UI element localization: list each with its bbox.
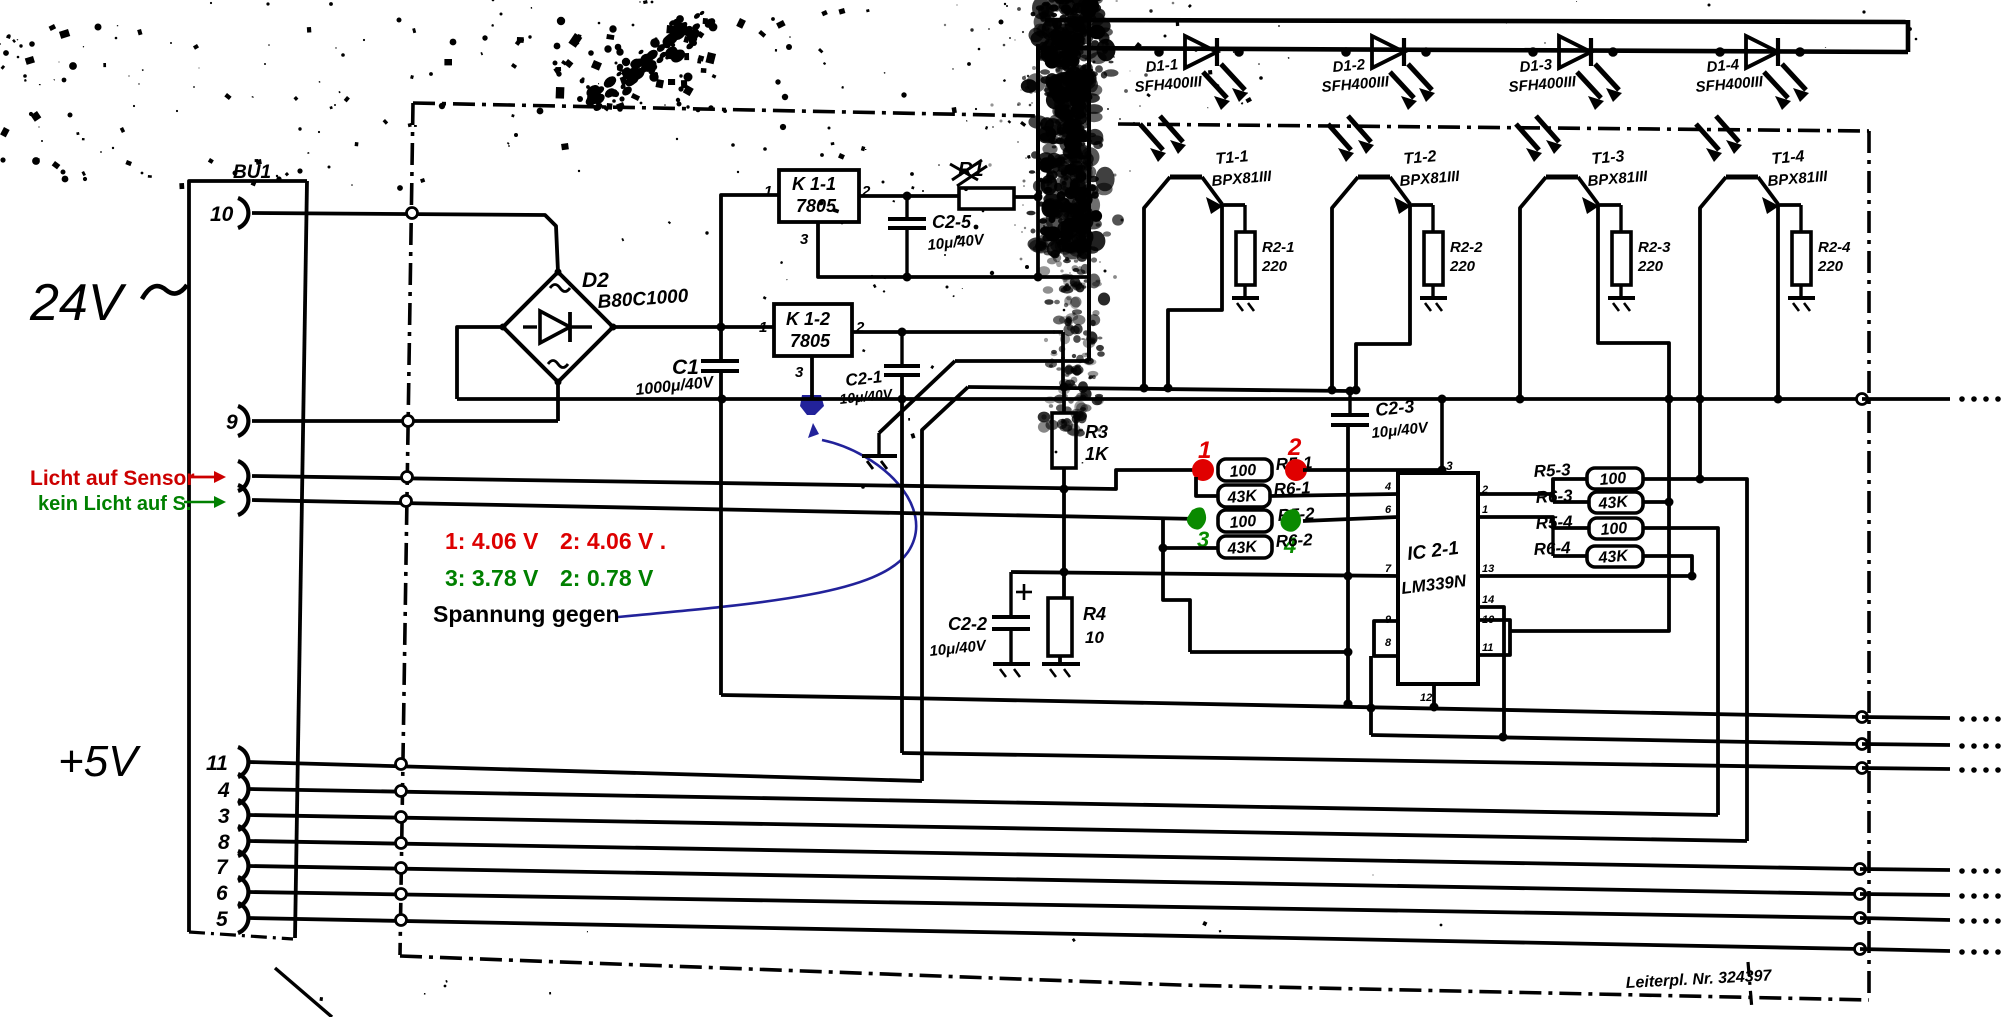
svg-text:1: 4.06 V: 1: 4.06 V — [445, 528, 539, 554]
svg-text:3: 3 — [1446, 459, 1453, 473]
svg-text:D1-3: D1-3 — [1519, 56, 1554, 76]
wire bridge bottom to pin9 — [556, 382, 560, 421]
svg-text:10: 10 — [1085, 628, 1104, 647]
resistor R4 box — [1048, 598, 1072, 656]
regulator K1-1 box — [779, 170, 859, 222]
phototransistor T1-1 — [1170, 175, 1202, 180]
wire line3 — [902, 753, 1862, 768]
svg-text:5: 5 — [216, 908, 228, 931]
junction dot C2-5 top — [903, 192, 912, 201]
junction dot R3 C2-2 line — [1060, 568, 1069, 577]
wire R5-3 right down to pin3 line — [1643, 479, 1747, 841]
svg-text:220: 220 — [1817, 258, 1844, 275]
wire R1 right to LED bus — [1014, 195, 1038, 199]
svg-text:100: 100 — [1600, 520, 1628, 539]
wire staircase diagonal — [922, 387, 968, 781]
junction dot R6-4 to line — [1688, 572, 1697, 581]
LED D1-3 — [1559, 36, 1591, 68]
svg-text:10: 10 — [210, 203, 234, 226]
PCB border top-right segment — [1118, 124, 1869, 131]
svg-text:R6-2: R6-2 — [1275, 530, 1313, 551]
svg-text:D1-2: D1-2 — [1332, 56, 1367, 76]
wire rail to IC pin3 — [1440, 399, 1444, 473]
BU1 pin 6 at y=892 — [238, 877, 248, 907]
svg-text:BU1: BU1 — [233, 162, 271, 183]
junction circle pin6 right border — [1855, 913, 1866, 924]
svg-text:1K: 1K — [1085, 444, 1110, 464]
wire R4 bottom lead — [1058, 656, 1062, 663]
svg-text:11: 11 — [1482, 642, 1493, 654]
capacitor C1 — [701, 359, 739, 363]
junction circle pin8 at border — [396, 838, 407, 849]
svg-text:43K: 43K — [1226, 487, 1259, 507]
junction circle pin8 right border — [1855, 864, 1866, 875]
BU1 pin sensor at y=476 — [238, 461, 248, 491]
svg-text:4: 4 — [1384, 481, 1391, 493]
junction circle sensor2 at border — [401, 496, 412, 507]
red probe dot 2 — [1285, 459, 1307, 481]
capacitor C2-2 plus sign — [1016, 591, 1032, 594]
svg-text:3: 3 — [795, 364, 804, 381]
bridge vertex dots — [555, 269, 562, 276]
wire R3 top lead — [1062, 387, 1066, 413]
wire IC left pin9 vertical — [1369, 656, 1373, 735]
BU1 pin 10 at y=213 — [238, 198, 248, 228]
wire R5-1 out to IC — [1303, 470, 1442, 473]
LED bus top line — [1045, 20, 1908, 22]
wire pin7 line — [249, 866, 1860, 894]
junction circle sensor1 at border — [402, 472, 413, 483]
junction dot rail K1-1 pin1 vertical — [718, 395, 727, 404]
junction circle line2 right border — [1857, 739, 1868, 750]
wire R3 bottom lead — [1062, 468, 1066, 598]
diagonal noise streak top-center — [583, 10, 717, 113]
junction circle pin7 at border — [396, 863, 407, 874]
svg-text:43K: 43K — [1597, 493, 1630, 513]
junction dot IC pin12 ground — [1430, 703, 1439, 712]
svg-text:R2-2: R2-2 — [1450, 239, 1483, 256]
capacitor C2-3 — [1331, 413, 1369, 417]
junction circle 0V rail right border — [1857, 394, 1868, 405]
LED D1-2 — [1372, 36, 1404, 68]
wire U-loop reference net — [1190, 650, 1348, 654]
PCB border right vertical — [1867, 131, 1871, 998]
wire +5V corner down — [1061, 332, 1065, 387]
svg-text:100: 100 — [1229, 513, 1257, 532]
junction dot C2-1 top — [898, 328, 907, 337]
wire R6-2 left stub and down — [1161, 518, 1165, 548]
resistor R6-1 box — [1218, 485, 1270, 507]
wire pin8 line — [249, 841, 1860, 869]
svg-text:43K: 43K — [1597, 547, 1630, 567]
svg-text:7805: 7805 — [790, 331, 831, 351]
capacitor C2-2 — [992, 615, 1030, 619]
LED bus bottom line — [1038, 48, 1908, 52]
svg-text:220: 220 — [1261, 258, 1288, 275]
svg-text:T1-4: T1-4 — [1771, 148, 1805, 168]
wire LED bus left vertical — [1036, 44, 1040, 197]
bridge D2 AC tilde top — [550, 285, 570, 292]
svg-text:1: 1 — [759, 319, 767, 336]
svg-text:9: 9 — [226, 411, 238, 434]
svg-text:3: 3 — [218, 805, 230, 828]
svg-text:100: 100 — [1599, 470, 1627, 489]
svg-text:7805: 7805 — [796, 196, 837, 216]
resistor R3 box — [1052, 413, 1076, 468]
phototransistor T1-3 — [1546, 175, 1578, 180]
junction circle pin9 at border — [403, 416, 414, 427]
resistor R5-1 box — [1218, 459, 1272, 481]
wire ground rail — [721, 695, 1862, 717]
wire pin11 +5V line — [249, 762, 922, 781]
IC2-1 left jog pins — [1374, 621, 1398, 656]
junction dot x1504 line2 — [1499, 733, 1508, 742]
BU1 pin 9 at y=421 — [238, 406, 248, 436]
dark scanner smudge column — [944, 0, 1174, 437]
svg-text:Licht auf Sensor: Licht auf Sensor — [30, 467, 195, 490]
red arrow to sensor pin — [188, 476, 222, 479]
resistor R6-2 box — [1218, 536, 1272, 558]
BU1 pin 8 at y=841 — [238, 826, 248, 856]
wire R6-3 left stub — [1553, 500, 1589, 504]
svg-text:T1-1: T1-1 — [1215, 148, 1249, 168]
junction dot plus rail at C1 — [717, 323, 726, 332]
svg-text:R2-3: R2-3 — [1638, 239, 1671, 256]
svg-text:2: 2 — [1287, 434, 1302, 461]
svg-text:220: 220 — [1637, 258, 1664, 275]
wire R6-4 right corner — [1643, 556, 1692, 576]
wire bridge plus to K1-2 pin1 — [613, 325, 774, 329]
junction dot R5-3 collector join — [1696, 475, 1705, 484]
blue node dot (K1-2 pin3 measurement point) — [800, 395, 824, 415]
LED bus right end cap — [1906, 20, 1911, 52]
svg-text:7: 7 — [216, 856, 229, 879]
svg-text:14: 14 — [1482, 594, 1494, 606]
svg-text:R3: R3 — [1085, 422, 1108, 442]
bridge D2 internal diode — [523, 325, 537, 328]
junction circle pin7 right border — [1855, 889, 1866, 900]
wire R5-3 left — [1478, 479, 1587, 494]
BU1 pin 4 at y=789 — [238, 774, 248, 804]
green probe dot 3 — [1187, 507, 1206, 529]
svg-text:D1-4: D1-4 — [1706, 56, 1741, 76]
wire line2 — [1371, 735, 1862, 744]
svg-text:12: 12 — [1420, 692, 1432, 704]
wire C2-2 top line — [1011, 572, 1398, 576]
svg-text:4: 4 — [217, 779, 230, 802]
svg-text:D2: D2 — [582, 269, 609, 292]
svg-text:Spannung gegen: Spannung gegen — [433, 601, 620, 627]
wire pin4 line — [249, 789, 1718, 815]
svg-text:1: 1 — [764, 183, 772, 200]
red probe dot 1 — [1192, 459, 1214, 481]
svg-text:K 1-1: K 1-1 — [792, 174, 836, 194]
svg-text:R2-1: R2-1 — [1262, 239, 1295, 256]
resistor R6-4 box — [1587, 546, 1643, 567]
stray diagonal stroke below BU1 — [275, 968, 332, 1017]
svg-text:8: 8 — [1385, 637, 1392, 649]
svg-text:3: 3.78 V: 3: 3.78 V — [445, 565, 539, 591]
bridge rectifier D2 diamond — [503, 272, 613, 382]
wire sensor1 Licht line — [252, 470, 1199, 489]
svg-text:C2-3: C2-3 — [1374, 396, 1415, 420]
svg-text:7: 7 — [1385, 563, 1392, 575]
wire sensor2 kein Licht line — [252, 500, 1199, 519]
wire rail B +5V horizontal — [968, 387, 1350, 391]
comparator IC2-1 box — [1398, 473, 1478, 684]
svg-text:2: 4.06 V .: 2: 4.06 V . — [560, 528, 666, 554]
wire IC pin14 corner — [1478, 607, 1504, 737]
wire C1 lower lead — [719, 373, 723, 695]
svg-text:13: 13 — [1482, 563, 1494, 575]
wire R5-4 right down to pin4 line — [1643, 528, 1718, 815]
wire R5-4 left — [1478, 517, 1589, 528]
bridge D2 AC tilde bottom — [548, 361, 568, 368]
LED D1-4 — [1746, 36, 1778, 68]
wire K1-2 pin2 +5V out — [852, 330, 1063, 334]
junction dot C2-3 rail — [1346, 387, 1355, 396]
svg-text:220: 220 — [1449, 258, 1476, 275]
wire R6-3 right to vertical — [1643, 500, 1669, 504]
ground symbol C2-2 — [993, 662, 1030, 666]
LED D1-1 — [1185, 36, 1217, 68]
resistor R6-3 box — [1589, 492, 1643, 513]
wire IC right jog pins — [1478, 620, 1510, 655]
junction dot x1371 ground — [1367, 704, 1376, 713]
resistor R1 box — [959, 188, 1014, 209]
junction dot C2-3 bottom — [1344, 572, 1353, 581]
BU1 pin 7 at y=866 — [238, 851, 248, 881]
ground symbol R4 — [1042, 662, 1080, 666]
wire pin3 line — [249, 815, 1747, 841]
junction circle pin4 at border — [396, 786, 407, 797]
svg-text:R2-4: R2-4 — [1818, 239, 1851, 256]
junction dot rail C2-1 lead — [898, 395, 907, 404]
svg-text:R4: R4 — [1083, 604, 1106, 624]
wire R6-1 right to IC — [1270, 494, 1398, 496]
junction circle line3 right border — [1857, 763, 1868, 774]
junction dot U-loop right — [1344, 648, 1353, 657]
junction circle ground rail right border — [1857, 712, 1868, 723]
svg-text:1: 1 — [1198, 437, 1211, 464]
connector BU1 outline — [189, 181, 307, 932]
wire K1-1 pin3 gnd line — [818, 222, 1088, 277]
phototransistor T1-4 — [1726, 175, 1758, 180]
wire R6-4 left stub — [1553, 554, 1587, 558]
junction dot rail B R3 — [1060, 383, 1069, 392]
svg-text:1: 1 — [1482, 504, 1488, 516]
svg-text:T1-3: T1-3 — [1591, 148, 1625, 168]
junction circle pin3 at border — [396, 812, 407, 823]
junction circle pin6 at border — [396, 889, 407, 900]
junction circle pin11 at border — [396, 759, 407, 770]
resistor R5-2 box — [1218, 510, 1272, 532]
PCB border left vertical — [400, 103, 413, 955]
junction circle pin10 at border — [407, 208, 418, 219]
junction dot R3 sensor1 line — [1060, 485, 1069, 494]
svg-text:kein Licht auf S.: kein Licht auf S. — [38, 493, 191, 515]
resistor R5-4 box — [1589, 518, 1643, 539]
wire gnd diagonal — [1087, 21, 1091, 361]
wire R5-2 out to IC — [1303, 517, 1398, 521]
svg-text:C2-2: C2-2 — [948, 614, 987, 634]
svg-text:43K: 43K — [1226, 538, 1259, 558]
title block vertical dash — [1748, 962, 1752, 1010]
wire R6-1 left stub — [1196, 477, 1218, 496]
BU1 pin 11 at y=762 — [238, 747, 248, 777]
wire K1-1 pin1 to rail — [721, 195, 779, 359]
resistor R5-3 box — [1587, 468, 1643, 489]
wire pin6 line — [249, 892, 1860, 918]
ground symbol near C2-1 — [862, 454, 897, 458]
IC2-1 bottom pin 12 — [1432, 684, 1436, 707]
junction circle pin5 right border — [1855, 944, 1866, 955]
svg-text:100: 100 — [1229, 462, 1257, 481]
svg-text:T1-2: T1-2 — [1403, 148, 1437, 168]
svg-text:6: 6 — [1385, 504, 1392, 516]
wire pin9 24V AC line — [252, 419, 558, 423]
green arrow to sensor pin — [184, 501, 222, 503]
svg-text:24V: 24V — [29, 274, 127, 332]
junction circle pin5 at border — [396, 915, 407, 926]
blue arrow curve to node — [618, 440, 916, 617]
wire pin10 24V AC line — [252, 213, 558, 272]
svg-text:11: 11 — [206, 752, 228, 775]
junction dot C2-5 bottom — [903, 273, 912, 282]
svg-text:2: 0.78 V: 2: 0.78 V — [560, 565, 654, 591]
wire K1-2 pin3 stub — [810, 356, 814, 399]
svg-text:C2-5: C2-5 — [932, 212, 972, 232]
PCB border top-left segment — [413, 103, 1040, 116]
wire bridge minus loop — [457, 327, 503, 399]
junction dot gnd U-column — [1344, 700, 1353, 709]
wire K1-1 pin2 to R1 — [859, 194, 959, 198]
BU1 pin 3 at y=815 — [238, 800, 248, 830]
svg-text:K 1-2: K 1-2 — [786, 309, 830, 329]
green probe dot 4 — [1281, 509, 1302, 532]
phototransistor T1-2 — [1358, 175, 1390, 180]
wire 0V rail horizontal — [457, 397, 1862, 401]
svg-text:6: 6 — [216, 882, 228, 905]
wire IC right 575 line — [1478, 574, 1692, 578]
wire pin5 line — [249, 918, 1860, 949]
regulator K1-2 box — [774, 304, 852, 356]
svg-text:+5V: +5V — [58, 737, 141, 786]
BU1 pin sensor at y=500 — [238, 485, 248, 515]
BU1 pin 5 at y=918 — [238, 903, 248, 933]
wire R1 right vertical to pin3 line — [1036, 197, 1040, 277]
PCB border bottom — [400, 956, 1869, 1000]
junction dot x1348 ground rail — [1344, 700, 1353, 709]
capacitor C2-1 — [884, 364, 920, 368]
svg-text:D1-1: D1-1 — [1145, 56, 1179, 76]
svg-text:3: 3 — [800, 231, 809, 248]
capacitor C2-5 — [888, 217, 926, 221]
svg-text:8: 8 — [218, 831, 230, 854]
